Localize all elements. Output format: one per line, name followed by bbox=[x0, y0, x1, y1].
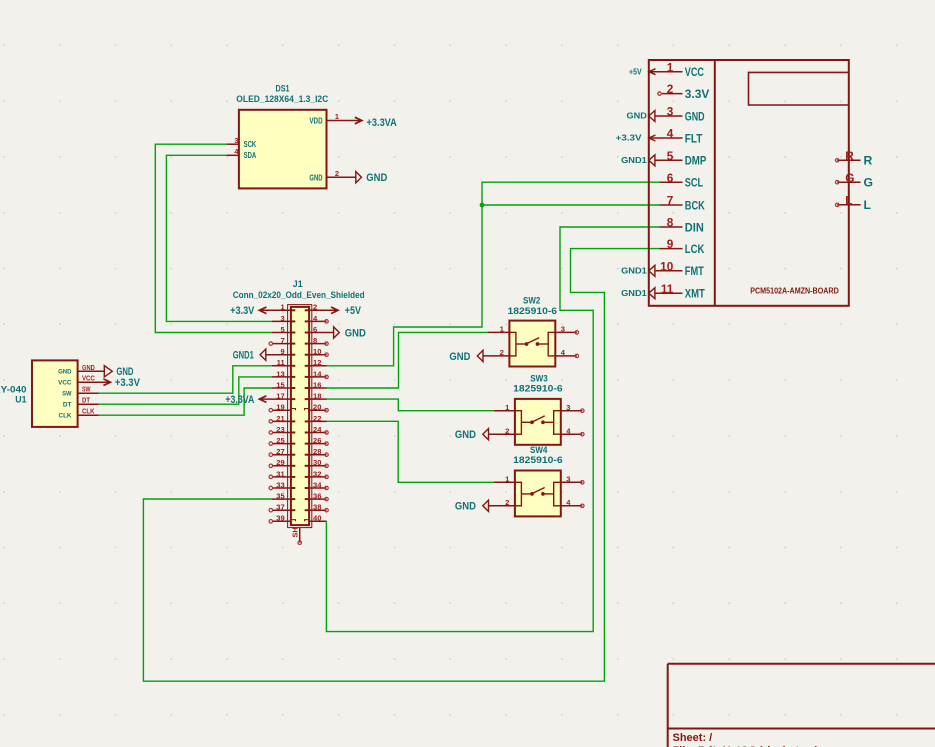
J1 pin 26 bbox=[305, 436, 329, 445]
svg-text:DT: DT bbox=[82, 396, 90, 405]
J1 pin 19 bbox=[269, 403, 295, 412]
svg-text:R: R bbox=[845, 149, 854, 163]
svg-text:GND1: GND1 bbox=[233, 350, 254, 362]
U1 pin DT with net label DT bbox=[78, 396, 99, 405]
svg-text:GND1: GND1 bbox=[621, 155, 647, 165]
PCM board pin L (right) bbox=[835, 193, 871, 212]
svg-text:FLT: FLT bbox=[685, 131, 703, 145]
svg-text:G: G bbox=[845, 171, 854, 185]
U1 pin CLK with net label CLK bbox=[78, 407, 99, 416]
SW2 value 1825910-6 bbox=[508, 306, 558, 316]
J1 pin 23 bbox=[269, 425, 295, 434]
svg-text:GND1: GND1 bbox=[621, 266, 647, 276]
module PCM5102A-AMZN-BOARD outline bbox=[649, 60, 849, 306]
power label +5V at J1 pin2 bbox=[331, 305, 361, 317]
svg-text:27: 27 bbox=[276, 447, 284, 456]
svg-text:4: 4 bbox=[667, 127, 674, 141]
power label GND1 at PCM pin 11 bbox=[621, 288, 655, 299]
power label GND1 at PCM pin 5 bbox=[621, 155, 655, 166]
svg-text:2: 2 bbox=[500, 348, 504, 357]
SW2 pin 1 bbox=[488, 325, 510, 334]
SW4 reference bbox=[530, 445, 547, 455]
connector J1 Conn_02x20_Odd_Even_Shielded body bbox=[288, 305, 312, 528]
svg-text:L: L bbox=[864, 198, 872, 212]
J1 pin 18 bbox=[305, 392, 327, 401]
DS1 pin 4 SDA bbox=[227, 147, 239, 156]
svg-text:VCC: VCC bbox=[685, 65, 704, 79]
svg-text:14: 14 bbox=[313, 369, 322, 378]
svg-text:SCL: SCL bbox=[685, 176, 704, 190]
svg-text:3: 3 bbox=[667, 105, 674, 119]
wire net SCL/BCK: J1 pin12 to PCM SCL bbox=[326, 182, 660, 366]
svg-text:29: 29 bbox=[276, 458, 284, 467]
J1 pin 1 bbox=[259, 303, 295, 312]
svg-text:PCM5102A-AMZN-BOARD: PCM5102A-AMZN-BOARD bbox=[750, 286, 839, 296]
svg-text:23: 23 bbox=[276, 425, 284, 434]
J1 pin 10 bbox=[305, 347, 329, 356]
PCM board pin 10 FMT bbox=[655, 259, 704, 278]
PCM board pin 3 GND bbox=[655, 105, 705, 124]
svg-text:24: 24 bbox=[313, 425, 322, 434]
svg-text:SCK: SCK bbox=[244, 139, 257, 149]
power label +3.3V at J1 pin1 bbox=[230, 305, 266, 317]
J1 pin 27 bbox=[269, 447, 295, 456]
J1 pin 38 bbox=[305, 503, 329, 512]
power label +3.3VA at J1 pin17 bbox=[225, 394, 266, 406]
J1 pin 5 bbox=[272, 325, 295, 334]
SW3 pin 1 bbox=[494, 403, 515, 412]
J1 pin 15 bbox=[272, 380, 295, 389]
SW4 value 1825910-6 bbox=[513, 455, 563, 465]
svg-text:SW4: SW4 bbox=[530, 445, 547, 455]
J1 pin 12 bbox=[305, 358, 327, 367]
svg-text:19: 19 bbox=[276, 403, 284, 412]
J1 pin 6 bbox=[305, 325, 334, 334]
J1 value Conn_02x20_Odd_Even_Shielded bbox=[233, 290, 365, 300]
PCM board pin 4 FLT bbox=[649, 127, 703, 146]
component U1 Y-040 rotary encoder body bbox=[32, 360, 78, 427]
svg-text:37: 37 bbox=[276, 503, 284, 512]
svg-text:CLK: CLK bbox=[59, 413, 72, 420]
svg-text:2: 2 bbox=[667, 82, 674, 96]
svg-text:DIN: DIN bbox=[685, 220, 704, 234]
svg-text:11: 11 bbox=[277, 358, 286, 367]
svg-text:OLED_128X64_1.3_I2C: OLED_128X64_1.3_I2C bbox=[236, 94, 329, 104]
PCM board pin 8 DIN bbox=[660, 216, 704, 235]
PCM board pin 5 DMP bbox=[655, 149, 706, 168]
svg-text:GND: GND bbox=[455, 429, 476, 441]
svg-text:SW2: SW2 bbox=[523, 295, 540, 305]
sheet title block bbox=[668, 664, 935, 747]
svg-text:18: 18 bbox=[313, 392, 321, 401]
svg-text:40: 40 bbox=[313, 514, 321, 523]
svg-text:GND: GND bbox=[345, 327, 366, 339]
PCM board pin 2 3.3V bbox=[658, 82, 710, 101]
J1 pin 29 bbox=[269, 458, 295, 467]
wire J1 pin16 to SW2 pin1 bbox=[326, 332, 488, 388]
power label GND at SW4 pin2 bbox=[455, 500, 489, 513]
title block Sheet text bbox=[673, 732, 713, 744]
svg-text:+3.3VA: +3.3VA bbox=[225, 394, 254, 406]
J1 pin 4 bbox=[305, 314, 329, 323]
svg-text:KY-040: KY-040 bbox=[0, 384, 27, 394]
PCM5102A-AMZN-BOARD value text bbox=[750, 286, 839, 296]
U1 pin SW with net label SW bbox=[78, 385, 99, 394]
svg-text:3: 3 bbox=[566, 403, 570, 412]
wire net SCK: DS1.SCK to J1 pin5 bbox=[155, 144, 272, 332]
svg-text:GND: GND bbox=[627, 111, 647, 121]
svg-text:J1: J1 bbox=[293, 279, 303, 289]
svg-text:SW: SW bbox=[82, 385, 91, 394]
svg-text:GND: GND bbox=[82, 363, 95, 372]
svg-text:GND: GND bbox=[58, 369, 71, 376]
svg-text:GND1: GND1 bbox=[621, 288, 647, 298]
svg-text:+5V: +5V bbox=[629, 66, 642, 76]
SW3 reference bbox=[530, 373, 547, 383]
J1 pin 14 bbox=[305, 369, 329, 378]
svg-text:GND: GND bbox=[685, 109, 705, 123]
J1 shield pin SH bbox=[290, 527, 301, 544]
svg-text:Conn_02x20_Odd_Even_Shielded: Conn_02x20_Odd_Even_Shielded bbox=[233, 290, 365, 300]
svg-text:10: 10 bbox=[660, 259, 674, 273]
svg-text:+5V: +5V bbox=[345, 305, 362, 317]
title block File text bbox=[673, 745, 822, 747]
svg-text:26: 26 bbox=[313, 436, 321, 445]
power label GND at J1 pin6 bbox=[334, 327, 366, 340]
svg-text:SW3: SW3 bbox=[530, 373, 547, 383]
svg-text:XMT: XMT bbox=[685, 287, 705, 301]
svg-text:DT: DT bbox=[63, 402, 72, 409]
U1 reference bbox=[15, 394, 26, 404]
svg-text:2: 2 bbox=[335, 169, 339, 178]
SW2 reference bbox=[523, 295, 540, 305]
svg-text:7: 7 bbox=[667, 194, 674, 208]
U1 value Y-040 bbox=[0, 384, 27, 394]
svg-text:2: 2 bbox=[505, 498, 509, 507]
component DS1 OLED_128X64_1.3_I2C body bbox=[239, 110, 327, 189]
U1 pin VCC with net label VCC bbox=[78, 374, 111, 383]
wire net LCK: PCM LCK to J1 pin35 bbox=[143, 249, 659, 682]
J1 pin 9 bbox=[266, 347, 296, 356]
svg-text:GND: GND bbox=[309, 172, 322, 182]
svg-text:35: 35 bbox=[276, 492, 285, 501]
svg-text:3: 3 bbox=[566, 475, 570, 484]
power label GND1 at PCM pin 10 bbox=[621, 265, 655, 276]
J1 pin 36 bbox=[305, 492, 329, 501]
J1 pin 8 bbox=[305, 336, 329, 345]
svg-text:28: 28 bbox=[313, 447, 321, 456]
svg-text:GND: GND bbox=[366, 172, 387, 184]
junction at BCK branch bbox=[480, 203, 485, 208]
wire net SDA: DS1.SDA to J1 pin3 bbox=[166, 155, 272, 321]
svg-text:10: 10 bbox=[313, 347, 321, 356]
switch SW2 1825910-6 body bbox=[509, 321, 555, 367]
J1 pin 2 bbox=[305, 303, 338, 312]
SW2 pin 2 bbox=[483, 348, 509, 357]
PCM board pin 9 LCK bbox=[660, 237, 705, 256]
svg-text:11: 11 bbox=[661, 282, 674, 296]
J1 pin 30 bbox=[305, 458, 329, 467]
svg-text:3: 3 bbox=[280, 314, 284, 323]
SW2 pin 3 bbox=[555, 325, 578, 335]
SW4 pin 3 bbox=[561, 475, 584, 485]
svg-text:DS1: DS1 bbox=[276, 84, 290, 94]
svg-text:SW: SW bbox=[62, 391, 72, 398]
svg-text:31: 31 bbox=[276, 469, 285, 478]
svg-text:13: 13 bbox=[276, 369, 284, 378]
J1 pin 35 bbox=[272, 492, 295, 501]
J1 pin 21 bbox=[269, 414, 295, 423]
PCM board pin 6 SCL bbox=[660, 171, 704, 190]
svg-text:6: 6 bbox=[313, 325, 317, 334]
svg-text:VDD: VDD bbox=[309, 116, 322, 126]
svg-text:CLK: CLK bbox=[82, 407, 95, 416]
SW4 pin 2 bbox=[489, 498, 515, 507]
svg-text:8: 8 bbox=[667, 216, 674, 230]
J1 pin 17 bbox=[259, 392, 295, 401]
DS1 pin 2 GND bbox=[327, 169, 356, 178]
switch SW4 1825910-6 body bbox=[515, 471, 561, 517]
svg-text:BCK: BCK bbox=[685, 198, 705, 212]
svg-text:SH: SH bbox=[290, 527, 299, 537]
PCM board pin 11 XMT bbox=[655, 282, 705, 301]
svg-text:1: 1 bbox=[667, 60, 674, 74]
svg-text:3: 3 bbox=[561, 325, 565, 334]
J1 pin 37 bbox=[269, 503, 295, 512]
J1 pin 39 bbox=[269, 514, 295, 523]
svg-text:1825910-6: 1825910-6 bbox=[508, 306, 558, 316]
svg-text:L: L bbox=[845, 193, 852, 207]
svg-text:3.3V: 3.3V bbox=[685, 87, 710, 101]
PCM board pin 7 BCK bbox=[660, 194, 705, 213]
svg-text:3: 3 bbox=[234, 136, 238, 145]
svg-text:VCC: VCC bbox=[58, 380, 71, 387]
svg-text:39: 39 bbox=[276, 514, 284, 523]
DS1 pin 3 SCK bbox=[227, 136, 239, 145]
DS1 reference bbox=[276, 84, 290, 94]
SW4 pin 1 bbox=[494, 475, 515, 484]
svg-text:R: R bbox=[864, 154, 873, 168]
J1 pin 3 bbox=[272, 314, 295, 323]
J1 pin 11 bbox=[272, 358, 295, 367]
svg-text:GND: GND bbox=[449, 351, 470, 363]
svg-text:GND: GND bbox=[455, 501, 476, 513]
SW3 pin 3 bbox=[561, 403, 584, 413]
svg-text:1825910-6: 1825910-6 bbox=[513, 455, 563, 465]
power label +3.3V at U1 bbox=[103, 377, 140, 389]
svg-text:34: 34 bbox=[313, 480, 322, 489]
svg-text:38: 38 bbox=[313, 503, 321, 512]
svg-text:FMT: FMT bbox=[685, 264, 704, 278]
svg-text:33: 33 bbox=[276, 480, 284, 489]
svg-text:25: 25 bbox=[276, 436, 285, 445]
wire net DT: U1.DT to J1 pin13 bbox=[99, 377, 272, 404]
wire J1 pin18 to SW3 pin1 bbox=[326, 399, 494, 411]
svg-text:12: 12 bbox=[313, 358, 321, 367]
J1 pin 7 bbox=[269, 336, 295, 345]
svg-text:SDA: SDA bbox=[244, 150, 257, 160]
svg-text:+3.3V: +3.3V bbox=[230, 305, 255, 317]
svg-text:36: 36 bbox=[313, 492, 321, 501]
power label GND at DS1 bbox=[356, 172, 388, 185]
svg-text:22: 22 bbox=[313, 414, 321, 423]
svg-text:2: 2 bbox=[505, 426, 509, 435]
svg-text:8: 8 bbox=[313, 336, 317, 345]
svg-text:G: G bbox=[864, 176, 873, 190]
J1 pin 40 bbox=[305, 514, 327, 523]
J1 reference bbox=[293, 279, 303, 289]
J1 pin 16 bbox=[305, 380, 327, 389]
power label GND at U1 bbox=[104, 366, 133, 379]
J1 pin 13 bbox=[272, 369, 295, 378]
svg-text:U1: U1 bbox=[15, 394, 26, 404]
SW4 pin 4 bbox=[561, 498, 584, 508]
power label +3.3V at PCM pin 4 bbox=[616, 133, 656, 143]
J1 pin 31 bbox=[269, 469, 295, 478]
wire net CLK: U1.CLK to J1 pin15 bbox=[99, 388, 272, 415]
wire branch BCK to PCM pin7 bbox=[482, 204, 660, 206]
J1 pin 33 bbox=[269, 480, 295, 489]
J1 pin 28 bbox=[305, 447, 329, 456]
J1 pin 32 bbox=[305, 469, 329, 478]
svg-text:20: 20 bbox=[313, 403, 321, 412]
svg-text:21: 21 bbox=[276, 414, 285, 423]
svg-text:2: 2 bbox=[313, 303, 317, 312]
svg-text:16: 16 bbox=[313, 380, 321, 389]
J1 pin 24 bbox=[305, 425, 329, 434]
wire J1 pin22 to SW4 pin1 bbox=[326, 421, 494, 482]
svg-text:1: 1 bbox=[335, 112, 339, 121]
power label GND at SW3 pin2 bbox=[455, 429, 489, 442]
svg-text:+3.3V: +3.3V bbox=[115, 377, 140, 389]
SW3 value 1825910-6 bbox=[513, 383, 563, 393]
svg-text:17: 17 bbox=[276, 392, 284, 401]
switch SW3 1825910-6 body bbox=[515, 399, 561, 445]
J1 pin 34 bbox=[305, 480, 329, 489]
power label GND at SW2 pin2 bbox=[449, 350, 483, 363]
svg-text:5: 5 bbox=[667, 149, 674, 163]
svg-text:LCK: LCK bbox=[685, 242, 705, 256]
svg-text:1825910-6: 1825910-6 bbox=[513, 383, 563, 393]
svg-text:+3.3V: +3.3V bbox=[616, 133, 642, 143]
wire net SW: U1.SW to J1 pin11 bbox=[99, 366, 272, 393]
svg-text:6: 6 bbox=[667, 171, 674, 185]
U1 pin GND with net label GND bbox=[78, 363, 105, 372]
DS1 value OLED_128X64_1.3_I2C bbox=[236, 94, 329, 104]
J1 pin 22 bbox=[305, 414, 327, 423]
power label +3.3VA at DS1 VDD bbox=[355, 117, 397, 129]
svg-text:30: 30 bbox=[313, 458, 321, 467]
PCM board pin G (right) bbox=[835, 171, 873, 190]
power label GND at PCM pin 3 bbox=[627, 111, 655, 122]
svg-text:+3.3VA: +3.3VA bbox=[367, 117, 397, 129]
svg-text:DMP: DMP bbox=[685, 154, 707, 168]
power label +5V at PCM pin 1 bbox=[629, 66, 656, 76]
DS1 pin 1 VDD bbox=[327, 112, 362, 121]
wire net DIN: PCM DIN to J1 pin40 bbox=[326, 227, 659, 632]
SW3 pin 2 bbox=[489, 426, 515, 435]
svg-text:9: 9 bbox=[280, 347, 284, 356]
power label GND1 at J1 pin9 bbox=[233, 349, 266, 362]
svg-text:VCC: VCC bbox=[82, 374, 95, 383]
SW3 pin 4 bbox=[561, 426, 584, 436]
svg-text:15: 15 bbox=[276, 380, 285, 389]
J1 pin 20 bbox=[305, 403, 329, 412]
svg-text:9: 9 bbox=[667, 237, 674, 251]
svg-text:32: 32 bbox=[313, 469, 321, 478]
PCM board pin R (right) bbox=[835, 149, 872, 168]
PCM board pin 1 VCC bbox=[649, 60, 704, 79]
svg-text:Sheet: /: Sheet: / bbox=[673, 732, 713, 744]
J1 pin 25 bbox=[269, 436, 295, 445]
svg-text:7: 7 bbox=[280, 336, 284, 345]
SW2 pin 4 bbox=[555, 348, 578, 358]
